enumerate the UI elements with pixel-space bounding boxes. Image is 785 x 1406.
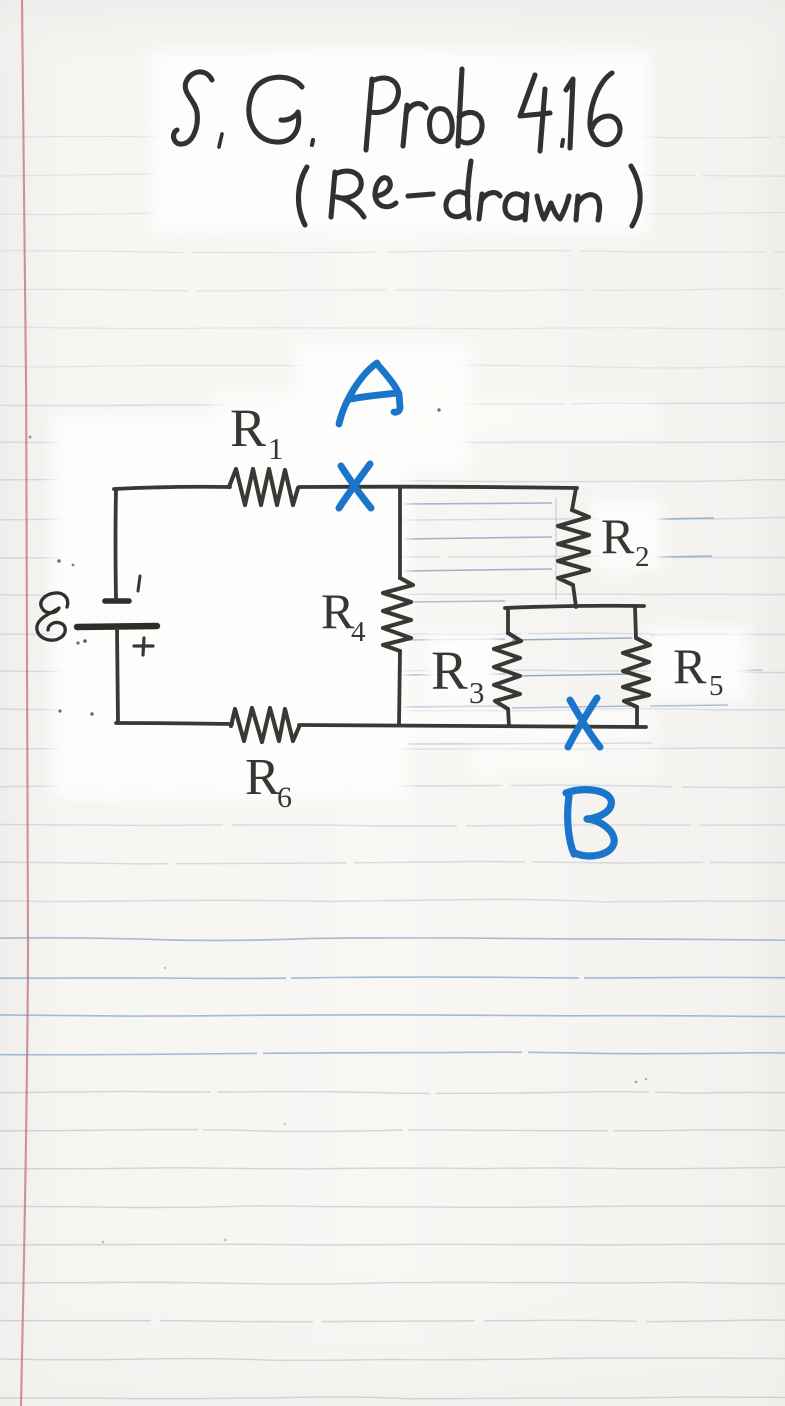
svg-text:2: 2 [635, 541, 650, 573]
node label A (blue marker) [339, 363, 400, 424]
label R4 [321, 583, 366, 648]
svg-text:R: R [431, 640, 468, 701]
resistor R2 [558, 510, 589, 585]
wire: bottom-left segment from corner to R6 [116, 723, 232, 724]
handwritten title line 1: S. G. Prob 4.16 [174, 69, 620, 151]
wire: R5 bottom stem to bottom rail [635, 707, 639, 726]
node label B (blue marker) [566, 790, 614, 856]
node A junction to R4 branch [398, 489, 402, 578]
wire: R2 bottom stem to middle rail [573, 585, 576, 607]
resistor R1 [229, 469, 298, 505]
label EMF script-E [37, 593, 68, 640]
wire: R2 top stem from top rail [572, 488, 576, 510]
wire: left vertical from battery positive down to bottom rail [117, 629, 118, 722]
label R1 [230, 398, 284, 466]
wire: top segment from R1 to node A and R2 corner [299, 487, 577, 488]
svg-text:5: 5 [709, 670, 724, 702]
svg-text:R: R [321, 583, 355, 639]
wire: R3 top stem [506, 608, 510, 633]
svg-text:R: R [230, 398, 266, 458]
X mark at node A on top rail [339, 464, 371, 508]
wire: bottom rail from R6 to node B and R5 [299, 725, 646, 727]
svg-text:4: 4 [351, 616, 366, 648]
svg-text:R: R [601, 508, 635, 564]
resistor R6 [231, 708, 299, 742]
X mark at node B on bottom rail [568, 698, 600, 747]
handwritten title line 2: (Re-drawn) [298, 161, 640, 226]
label R2 [601, 508, 650, 573]
wire: R4 bottom stem to bottom rail [399, 651, 400, 725]
label R3 [431, 640, 485, 710]
svg-text:R: R [245, 749, 280, 806]
svg-text:R: R [673, 638, 707, 694]
label R5 [673, 638, 724, 702]
wire: R5 top stem [635, 607, 636, 638]
resistor R5 [623, 638, 650, 707]
battery cell E (EMF source) [77, 576, 157, 655]
resistor R4 [383, 578, 413, 651]
resistor R3 [494, 633, 521, 709]
svg-text:6: 6 [277, 781, 292, 814]
wire: top-left segment from corner to R1 [114, 487, 230, 489]
wire: middle rail joining R3 and R5 branches [505, 606, 644, 608]
label R6 [245, 749, 292, 814]
svg-text:3: 3 [469, 675, 485, 710]
svg-text:1: 1 [268, 431, 284, 466]
wire: R3 bottom stem to bottom rail [508, 709, 509, 726]
wire: left vertical from battery negative up to R1 row [114, 490, 118, 599]
